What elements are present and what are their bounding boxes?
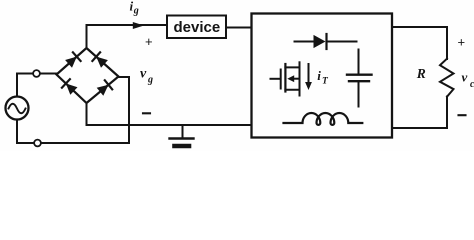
svg-text:v: v xyxy=(462,70,468,85)
svg-text:R: R xyxy=(416,66,426,81)
svg-text:g: g xyxy=(133,6,139,17)
svg-text:device: device xyxy=(174,19,221,36)
svg-text:c: c xyxy=(470,79,474,90)
svg-text:i: i xyxy=(317,68,321,83)
svg-text:+: + xyxy=(145,34,153,49)
svg-text:+: + xyxy=(458,35,466,50)
svg-text:g: g xyxy=(147,75,153,86)
svg-text:v: v xyxy=(140,67,147,82)
